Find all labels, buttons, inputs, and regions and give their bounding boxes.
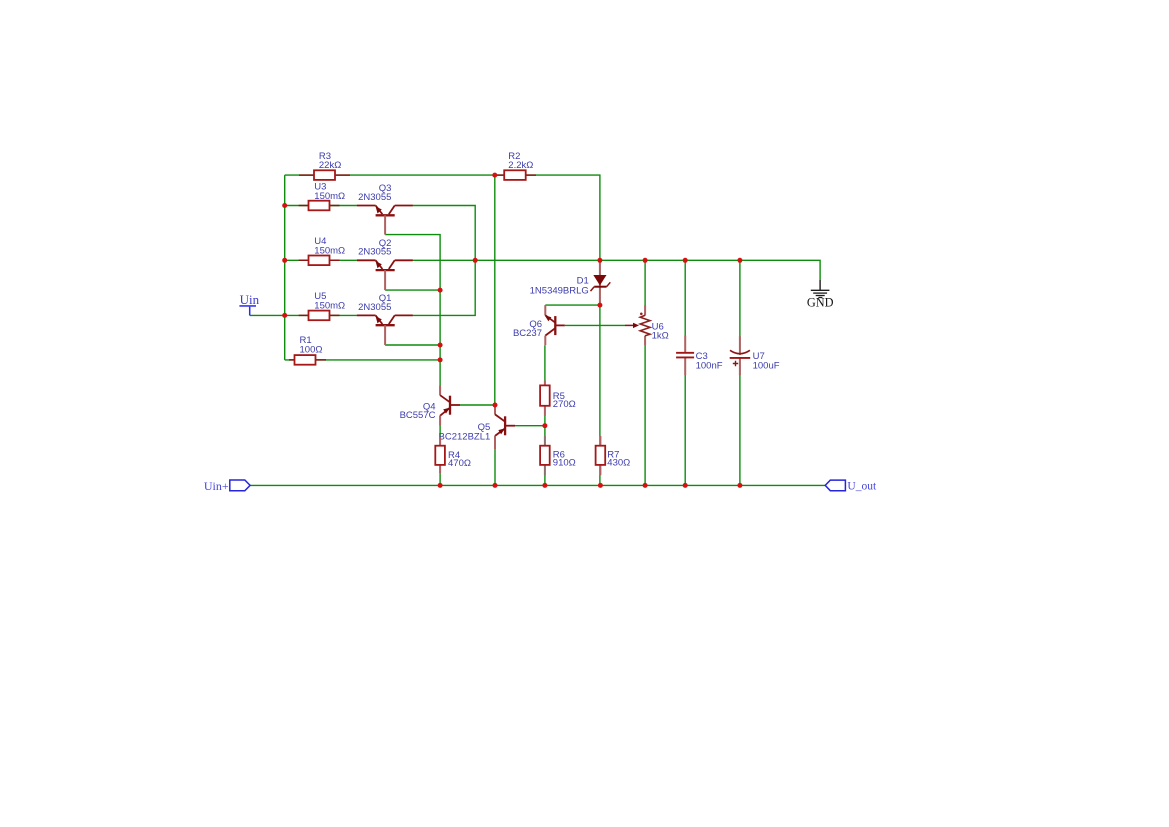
wire x740 U7 lower <box>739 358 741 486</box>
svg-text:150mΩ: 150mΩ <box>314 301 345 312</box>
svg-text:150mΩ: 150mΩ <box>314 246 345 257</box>
wire x740 U7 upper <box>739 260 741 351</box>
junction R2 left <box>492 173 497 178</box>
resistor R5 270 <box>540 381 576 416</box>
junction Q2 base <box>438 288 443 293</box>
wire x685 C3 upper <box>684 260 686 353</box>
junction Q1 base <box>438 343 443 348</box>
resistor U4 150m <box>299 236 345 265</box>
wire R1 row <box>285 359 440 361</box>
transistor Q2 2N3055 <box>357 238 413 290</box>
wire x440 bus lower through R4 <box>439 416 441 486</box>
resistor R1 100 <box>289 335 326 365</box>
resistor R2 2.2k <box>495 151 536 180</box>
svg-text:100Ω: 100Ω <box>300 344 323 355</box>
wire Q1 base stub <box>385 344 440 346</box>
resistor R3 22k <box>299 151 350 180</box>
transistor Q6 BC237 <box>513 305 565 345</box>
junction R1 right <box>438 357 443 362</box>
svg-text:BC557C: BC557C <box>400 410 436 421</box>
transistor Q5 BC212BZL1 <box>439 405 516 449</box>
svg-text:1kΩ: 1kΩ <box>652 331 669 342</box>
wire x685 C3 lower <box>684 357 686 485</box>
ground GND <box>807 280 834 309</box>
svg-text:910Ω: 910Ω <box>553 458 576 469</box>
wire Q3 base to x440 bus upper <box>385 235 440 396</box>
resistor R6 910 <box>540 436 576 476</box>
wire U5 row <box>285 314 357 316</box>
port U_out <box>825 480 877 492</box>
wire top rail from left vertical through R3 R2 down to row2 <box>285 175 600 260</box>
wire x645 pot upper <box>644 260 646 315</box>
wire x645 pot lower <box>644 336 646 486</box>
svg-text:100nF: 100nF <box>696 361 723 372</box>
transistor Q3 2N3055 <box>357 183 413 235</box>
junction bottom pot <box>643 483 648 488</box>
svg-text:1N5349BRLG: 1N5349BRLG <box>530 286 589 297</box>
junction bottom R4 <box>438 483 443 488</box>
potentiometer U6 1k <box>625 305 669 345</box>
wire Q4 base <box>460 404 495 406</box>
svg-text:270Ω: 270Ω <box>553 399 576 410</box>
junction bottom R6 <box>542 483 547 488</box>
junction U4 left <box>282 258 287 263</box>
svg-text:2N3055: 2N3055 <box>358 247 391 258</box>
junction Q4 base Q5 collector <box>493 403 498 408</box>
wire collector loop Q3 to Q1 <box>413 206 476 316</box>
resistor U5 150m <box>299 291 345 320</box>
capacitor U7 100uF electrolytic <box>730 336 780 375</box>
svg-text:Uin+: Uin+ <box>204 479 229 493</box>
resistor U3 150m <box>299 181 345 210</box>
junction pot top <box>643 258 648 263</box>
junction Q5 base R5 R6 <box>542 423 547 428</box>
port Uin+ <box>204 479 250 493</box>
resistor R4 470 <box>435 437 471 473</box>
resistor R7 430 <box>596 436 631 475</box>
transistor Q1 2N3055 <box>357 293 413 345</box>
capacitor C3 100nF <box>676 336 723 376</box>
svg-text:22kΩ: 22kΩ <box>319 160 341 171</box>
svg-text:2N3055: 2N3055 <box>358 302 391 313</box>
wire x600 D1 R7 chain <box>599 260 601 485</box>
svg-text:2.2kΩ: 2.2kΩ <box>508 160 533 171</box>
svg-text:150mΩ: 150mΩ <box>314 191 345 202</box>
junction bottom R7 <box>598 483 603 488</box>
wire Q6 emitter link from D1 node <box>545 304 600 306</box>
power port Uin <box>239 292 259 316</box>
junction D1 bottom <box>597 303 602 308</box>
svg-text:U_out: U_out <box>847 481 877 493</box>
svg-text:100uF: 100uF <box>753 361 780 372</box>
wire U3 row <box>285 205 357 207</box>
wire bottom rail <box>250 484 825 486</box>
junction bottom C3 <box>683 483 688 488</box>
junction U5 left <box>282 313 287 318</box>
junction U7 top <box>737 258 742 263</box>
wire U4 row <box>285 259 357 261</box>
svg-text:Uin: Uin <box>240 292 260 307</box>
wire x495 vertical upper <box>494 175 496 414</box>
wire left vertical bus <box>284 175 286 360</box>
wire Uin stub <box>250 314 285 316</box>
wire x545 Q6 collector chain through R5 R6 <box>544 345 546 485</box>
junction U3 left <box>282 203 287 208</box>
wire main row2 rail to GND corner <box>413 260 820 280</box>
junction C3 top <box>683 258 688 263</box>
svg-text:BC212BZL1: BC212BZL1 <box>439 431 491 442</box>
wire Q2 base stub <box>385 289 440 291</box>
junction collector rail x475 <box>473 258 478 263</box>
wire x495 vertical lower <box>494 436 496 486</box>
svg-text:GND: GND <box>807 295 834 309</box>
svg-text:BC237: BC237 <box>513 328 542 339</box>
wire Q6 base to pot wiper <box>565 324 625 326</box>
svg-text:430Ω: 430Ω <box>607 458 630 469</box>
diode D1 1N5349BRLG zener <box>530 260 611 305</box>
svg-text:470Ω: 470Ω <box>448 458 471 469</box>
wire Q5 base <box>515 425 545 427</box>
transistor Q4 BC557C <box>400 386 460 426</box>
svg-text:2N3055: 2N3055 <box>358 192 391 203</box>
junction bottom U7 <box>737 483 742 488</box>
junction D1 top <box>597 258 602 263</box>
junction bottom Q5 <box>493 483 498 488</box>
